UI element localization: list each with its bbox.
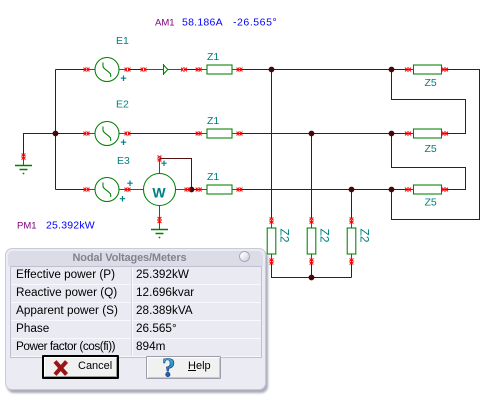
ground left [15, 156, 32, 174]
source E2 [87, 122, 127, 146]
pin Z2 shunt3 top [350, 218, 354, 224]
pin AM1 left [141, 68, 147, 72]
junction phase1 bus node [269, 67, 275, 73]
svg-text:Z5: Z5 [425, 77, 437, 89]
svg-text:AM1: AM1 [155, 18, 175, 29]
pin E2 left [84, 132, 90, 136]
impedance Z1 row2 [199, 129, 240, 138]
wire delta link Z5c [392, 134, 466, 190]
wire wattmeter voltage tap [160, 159, 192, 190]
svg-text:25.392kW: 25.392kW [46, 219, 95, 231]
wire Z2 bottom rail [272, 262, 352, 278]
pin E2 right [125, 132, 131, 136]
pin Z1 row3 right [237, 188, 243, 192]
source E1 [87, 58, 127, 82]
pin ground left [22, 154, 26, 160]
svg-text:W: W [152, 185, 166, 201]
pin Z2 shunt1 bottom [270, 259, 274, 265]
junction phase2 bus node [309, 131, 315, 137]
junction ground rail node [53, 131, 59, 137]
wire delta link Z5a [392, 70, 480, 220]
pin Z5 row2 left [405, 132, 411, 136]
pin PM1 voltage top [158, 156, 162, 162]
wire ground tap [24, 134, 56, 157]
pin Z1 row2 left [196, 132, 202, 136]
pin E3 left [84, 188, 90, 192]
wattmeter PM1 circle [127, 159, 188, 230]
pin Z1 row1 right [237, 68, 243, 72]
svg-text:58.186A: 58.186A [182, 17, 223, 29]
impedance Z1 row1 [199, 65, 240, 74]
source E3 [87, 178, 127, 202]
polarity plus PM1 voltage [161, 161, 166, 167]
pin Z5 row1 left [405, 68, 411, 72]
svg-text:Z5: Z5 [425, 143, 437, 155]
pin Z5 row3 right [442, 188, 448, 192]
svg-text:Z1: Z1 [207, 51, 219, 63]
impedance Z2 shunt3 [347, 220, 356, 262]
svg-text:-26.565°: -26.565° [233, 17, 277, 29]
wire bus phase1 down [271, 70, 273, 220]
pin Z1 row2 right [237, 132, 243, 136]
wire row3 segments [56, 189, 392, 191]
svg-text:E3: E3 [117, 155, 130, 167]
junction phase3 delta node [389, 187, 395, 193]
impedance Z5 row3 [408, 185, 445, 194]
pin AM1 right [181, 68, 187, 72]
svg-text:Z2: Z2 [318, 229, 332, 243]
pin Z5 row1 right [442, 68, 448, 72]
polarity plus E1 [121, 76, 126, 82]
svg-text:Z5: Z5 [425, 197, 437, 209]
ground under wattmeter [151, 230, 168, 239]
wire bus phase2 down [311, 134, 313, 220]
pin PM1 ground [158, 217, 162, 223]
meter readouts [17, 17, 277, 232]
junction Z2 star node [309, 275, 315, 281]
pin E3 right [125, 188, 131, 192]
svg-text:E2: E2 [116, 99, 129, 111]
pin Z1 row3 left [196, 188, 202, 192]
pin E1 left [84, 68, 90, 72]
junction wattmeter tap node [189, 187, 195, 193]
polarity plus PM1 current [127, 181, 132, 187]
impedance Z2 shunt1 [267, 220, 276, 262]
svg-text:Z2: Z2 [358, 229, 372, 243]
svg-text:PM1: PM1 [17, 220, 37, 231]
pin Z1 row1 left [196, 68, 202, 72]
impedance Z5 row2 [408, 129, 445, 138]
impedance Z1 row3 [199, 185, 240, 194]
pin Z2 shunt1 top [270, 218, 274, 224]
dialog Nodal Voltages/Meters [5, 248, 266, 390]
svg-text:Z1: Z1 [207, 171, 219, 183]
wire left rail [55, 70, 57, 190]
pin Z2 shunt2 bottom [310, 259, 314, 265]
impedance Z5 row1 [408, 65, 445, 74]
wire delta link Z5b [392, 70, 466, 134]
pin PM1 right [185, 188, 191, 192]
pin Z2 shunt3 bottom [350, 259, 354, 265]
wire Z5 feeders [392, 70, 409, 190]
pin Z5 row2 right [442, 132, 448, 136]
wire bus phase3 down [351, 190, 353, 220]
junction phase2 delta node [389, 131, 395, 137]
junction phase3 bus node [349, 187, 355, 193]
junction phase1 delta node [389, 67, 395, 73]
svg-text:Z1: Z1 [207, 115, 219, 127]
svg-text:E1: E1 [116, 35, 129, 47]
wire row2 segments [56, 133, 392, 135]
impedance Z2 shunt2 [307, 220, 316, 262]
pin Z5 row3 left [405, 188, 411, 192]
polarity plus E3 [120, 196, 125, 202]
pin Z2 shunt2 top [310, 218, 314, 224]
polarity plus E2 [121, 140, 126, 146]
ammeter AM1 arrow [144, 64, 183, 75]
svg-text:Z2: Z2 [278, 229, 292, 243]
wire row1 segments [56, 69, 392, 71]
svg-text:?: ? [162, 357, 176, 380]
pin E1 right [125, 68, 131, 72]
